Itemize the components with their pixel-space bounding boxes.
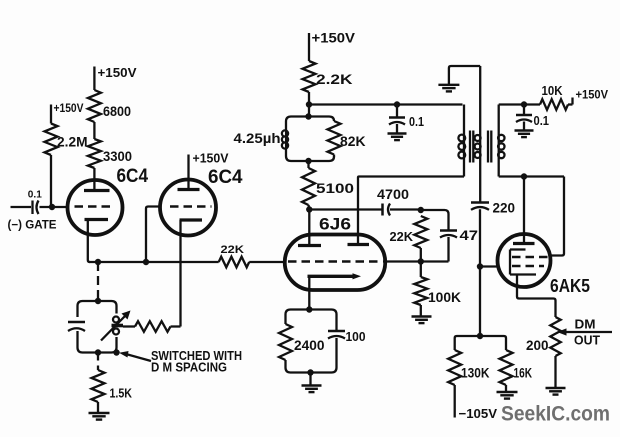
capacitor 0.1 bypass left — [396, 105, 398, 118]
wire dashed tank to 1.5K — [97, 353, 99, 371]
capacitor 100 — [328, 331, 345, 339]
wire middle winding to ground — [449, 66, 480, 84]
wiper arrow DM OUT — [565, 331, 612, 333]
node LC top — [305, 113, 311, 119]
potentiometer 200 — [550, 317, 560, 356]
ground 200 — [546, 388, 566, 395]
wire V1 cathode down — [88, 220, 90, 263]
svg-text:+150V: +150V — [98, 65, 137, 80]
V4 plate — [513, 242, 535, 245]
wire V3 cathode down — [308, 276, 310, 309]
wire 130K to -105V — [454, 385, 456, 418]
wire pot to ground — [554, 356, 556, 387]
svg-text:SeekIC.com: SeekIC.com — [501, 403, 610, 426]
tube V3 6J6 envelope — [285, 235, 385, 291]
V2 grid (dashed) — [170, 205, 212, 207]
tank circuit loop bottom — [78, 331, 117, 353]
inductor 4.25uh — [282, 129, 288, 150]
resistor 6800 — [88, 90, 101, 122]
svg-text:16K: 16K — [514, 366, 533, 381]
wire +150V lead to 2.2M — [50, 105, 52, 124]
V3 grid (dashed) — [288, 260, 381, 262]
ground 100K — [412, 317, 432, 324]
transformer primary winding (left) — [463, 105, 465, 177]
LC tank loop — [286, 117, 334, 162]
V4 suppressor/cathode bracket — [510, 250, 536, 275]
wire 5100 to plate node — [307, 205, 310, 210]
wire 22K to 6J6 grid — [249, 261, 285, 263]
wire 2.2K down to LC — [308, 92, 310, 117]
wire V2 cathode down to R spacing — [179, 220, 181, 327]
node bus B — [143, 259, 149, 265]
wire V2 grid lead — [146, 207, 161, 263]
wire 1.5K to ground — [97, 402, 99, 413]
wire node to 47 corner — [421, 210, 449, 231]
svg-text:D M SPACING: D M SPACING — [151, 361, 227, 375]
grounded winding (middle) — [479, 66, 481, 202]
wire grid line to 47 — [383, 260, 449, 262]
wire plate1 row to 4700 — [309, 208, 381, 210]
V4 control grid (dashed) — [512, 265, 544, 267]
resistor 2400 — [279, 324, 292, 360]
svg-text:6800: 6800 — [103, 104, 131, 119]
svg-text:2.2M: 2.2M — [57, 135, 88, 150]
wire 220 down to bias node — [479, 209, 481, 336]
ground 0.1 left — [388, 134, 407, 141]
arrow variable cap — [101, 315, 126, 341]
node input grid junction — [49, 204, 55, 210]
wire 3300 to V1 plate — [93, 168, 95, 191]
V1 grid (dashed) — [75, 205, 115, 207]
svg-text:(−) GATE: (−) GATE — [8, 218, 57, 232]
wire +150V top center — [308, 33, 310, 61]
node plate lead — [521, 173, 527, 179]
V1 cathode — [85, 218, 109, 221]
ground 1.5K — [89, 413, 110, 420]
wire LC to 5100 — [307, 161, 309, 168]
resistor 10K — [540, 99, 568, 110]
svg-text:4700: 4700 — [377, 187, 409, 202]
wire secondary bottom — [499, 175, 564, 177]
svg-text:22K: 22K — [221, 244, 245, 256]
node 0.1 right — [521, 101, 527, 107]
transformer core — [470, 131, 491, 163]
V3 plate2 lead — [357, 178, 359, 245]
ground 16K — [497, 392, 518, 399]
svg-text:6C4: 6C4 — [117, 166, 149, 187]
wire 16K to ground — [505, 385, 507, 391]
wire 6800 to 3300 — [93, 122, 95, 139]
resistor 82K — [328, 121, 341, 155]
wire grid to 6AK5 — [480, 265, 498, 267]
capacitor 0.1 right — [523, 105, 525, 116]
wire 10K to +150V — [568, 103, 573, 105]
wire cap to grid node — [40, 206, 68, 208]
ground transformer — [438, 85, 459, 92]
V2 cathode — [180, 218, 203, 221]
wire +150V lead to 6800 — [93, 67, 95, 91]
capacitor 220 — [471, 203, 489, 210]
ground 0.1 right — [515, 131, 534, 138]
wire V4 cathode — [517, 275, 556, 318]
ground 2400 — [302, 386, 322, 393]
resistor 100K — [420, 262, 422, 278]
wire plate2 to primary — [358, 177, 464, 178]
resistor 16K — [500, 350, 513, 385]
node tank bottom right — [113, 349, 119, 355]
resistor 22K horizontal — [219, 257, 250, 268]
svg-text:220: 220 — [493, 200, 516, 216]
wire 4700 to node — [390, 208, 421, 210]
RC loop bottom — [286, 338, 337, 373]
node 6J6 plate1 — [306, 206, 312, 212]
svg-text:47: 47 — [460, 227, 479, 243]
RC loop 2400/100 top — [286, 310, 337, 332]
svg-text:0.1: 0.1 — [409, 114, 424, 129]
capacitor fixed in tank — [68, 322, 85, 331]
node 22K/47 top — [418, 207, 424, 213]
svg-text:100: 100 — [346, 330, 366, 344]
node 6AK5 grid — [477, 263, 483, 269]
resistor 1.5K — [92, 370, 105, 402]
svg-text:22K: 22K — [390, 229, 414, 244]
svg-text:3300: 3300 — [103, 149, 132, 164]
capacitor 4700 — [383, 204, 391, 216]
V3 cathode with arrow — [308, 275, 355, 278]
svg-text:6AK5: 6AK5 — [550, 275, 590, 296]
tube V4 6AK5 envelope — [498, 234, 551, 287]
node bias divider — [477, 333, 483, 339]
capacitor C_in 0.1 input coupling — [33, 201, 39, 215]
V1 plate — [84, 189, 110, 192]
tube V2 6C4 envelope — [160, 180, 216, 236]
resistor 2.2M — [45, 124, 58, 156]
V2 plate — [178, 188, 200, 191]
node V3 cathode — [306, 306, 312, 312]
capacitor 47 — [440, 231, 457, 238]
tube V1 6C4 envelope — [68, 180, 123, 235]
svg-text:+150V: +150V — [193, 152, 230, 166]
svg-text:+150V: +150V — [576, 90, 609, 102]
svg-text:0.1: 0.1 — [534, 113, 550, 128]
transformer secondary winding (right) — [498, 105, 500, 177]
V4 screen grid (dashed) — [512, 256, 549, 258]
svg-text:2400: 2400 — [294, 338, 325, 353]
wire 6AK5 plate lead — [523, 177, 525, 244]
svg-text:130K: 130K — [461, 366, 490, 381]
svg-text:2.2K: 2.2K — [316, 72, 353, 87]
wire +150V lead to V2 plate — [187, 155, 189, 190]
resistor 3300 — [88, 139, 101, 168]
svg-text:5100: 5100 — [316, 181, 354, 196]
wire 2.2M to grid node — [50, 155, 52, 207]
wire dashed switch drop — [97, 262, 99, 301]
node LC bottom — [305, 158, 311, 164]
wire to ground — [309, 373, 311, 385]
node tank top — [95, 298, 101, 304]
resistor 22K vertical — [414, 216, 427, 248]
svg-text:−105V: −105V — [459, 406, 498, 421]
node B+ branch — [306, 101, 312, 107]
svg-text:+150V: +150V — [312, 31, 356, 46]
wire B+ to transformer — [309, 103, 463, 105]
svg-text:200: 200 — [526, 337, 549, 353]
svg-text:0.1: 0.1 — [28, 190, 42, 201]
svg-text:6C4: 6C4 — [208, 167, 243, 188]
node bus A — [95, 259, 101, 265]
wire divider right — [480, 336, 506, 350]
node RC bottom — [307, 369, 313, 375]
resistor 130K — [448, 350, 461, 385]
svg-text:10K: 10K — [542, 84, 563, 98]
svg-text:1.5K: 1.5K — [110, 386, 133, 401]
wire divider left — [455, 336, 480, 350]
wire screen feed — [550, 177, 565, 256]
wire cathode bus — [89, 261, 219, 263]
resistor 5100 — [302, 168, 315, 205]
svg-text:100K: 100K — [428, 290, 461, 305]
node 100K top — [418, 258, 424, 264]
variable capacitor (switched) — [112, 317, 124, 335]
wire spacing R to V2 cathode — [171, 325, 181, 327]
svg-text:+150V: +150V — [54, 101, 84, 115]
V3 plate2 — [348, 243, 370, 246]
svg-text:DM: DM — [575, 318, 596, 332]
node 0.1 bypass left — [394, 101, 400, 107]
annotation arrow switched — [126, 354, 151, 361]
svg-text:6J6: 6J6 — [319, 215, 351, 234]
svg-text:4.25µh: 4.25µh — [234, 130, 281, 146]
node tank bottom — [95, 349, 101, 355]
V3 plate1 — [298, 244, 321, 247]
resistor 2.2K — [303, 61, 316, 92]
wire input lead — [11, 206, 32, 208]
tank circuit loop top — [78, 301, 117, 317]
svg-text:82K: 82K — [340, 134, 366, 149]
resistor spacing horizontal — [123, 325, 135, 327]
V3 plate1 lead — [308, 210, 310, 246]
wire secondary top to node — [499, 103, 540, 105]
svg-text:OUT: OUT — [574, 334, 600, 348]
